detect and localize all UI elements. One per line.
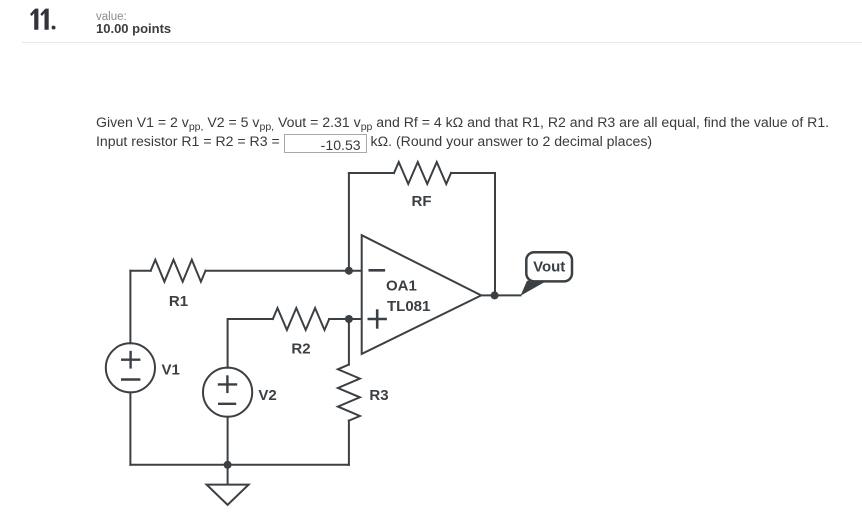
net label Vout box [526,252,572,281]
op-amp inverting input marker (minus) [370,269,384,272]
wire: feedback right vertical down to output [494,173,496,295]
junction: non-inverting input node [345,315,353,323]
svg-text:Vout: Vout [533,259,565,276]
wire: feedback top-right segment [451,172,495,174]
wire: R2 to non-inverting input [329,318,362,320]
svg-text:R3: R3 [369,387,388,404]
svg-text:RF: RF [412,193,432,210]
voltage source V2 [203,368,252,417]
resistor R1 [151,260,206,282]
header question number 11. [30,9,55,30]
op-amp OA1 triangle [362,235,482,354]
svg-text:V2: V2 [258,387,276,404]
wire: output lead [481,294,520,296]
wire: inverting-input net from left branch corner to op-amp [130,270,361,272]
junction: inverting input node [345,267,353,275]
wire: V1 bottom lead [129,392,131,464]
wire: V2 top lead and corner to R2 [228,319,273,368]
wire: feedback top-left segment [349,172,394,174]
junction: output node [491,291,499,299]
wire: R3 top lead [348,319,350,365]
wire: R3 bottom lead [348,421,350,465]
wire: feedback left vertical [348,173,350,271]
svg-text:TL081: TL081 [387,298,430,315]
op-amp non-inverting input marker (plus) [369,311,386,328]
svg-text:OA1: OA1 [386,278,417,295]
voltage source V1 [106,343,155,392]
resistor R2 [273,308,329,330]
net label Vout pointer tail [521,281,548,296]
wire: V2 bottom lead [227,417,229,465]
svg-text:V1: V1 [162,362,180,379]
svg-text:R2: R2 [291,341,310,358]
resistor RF [394,162,451,184]
junction: ground node [224,461,232,469]
ground [207,465,249,505]
svg-text:R1: R1 [169,293,188,310]
wire: V1 top lead [129,271,131,344]
resistor R3 [338,365,360,421]
wire: bottom ground bus [130,464,349,466]
